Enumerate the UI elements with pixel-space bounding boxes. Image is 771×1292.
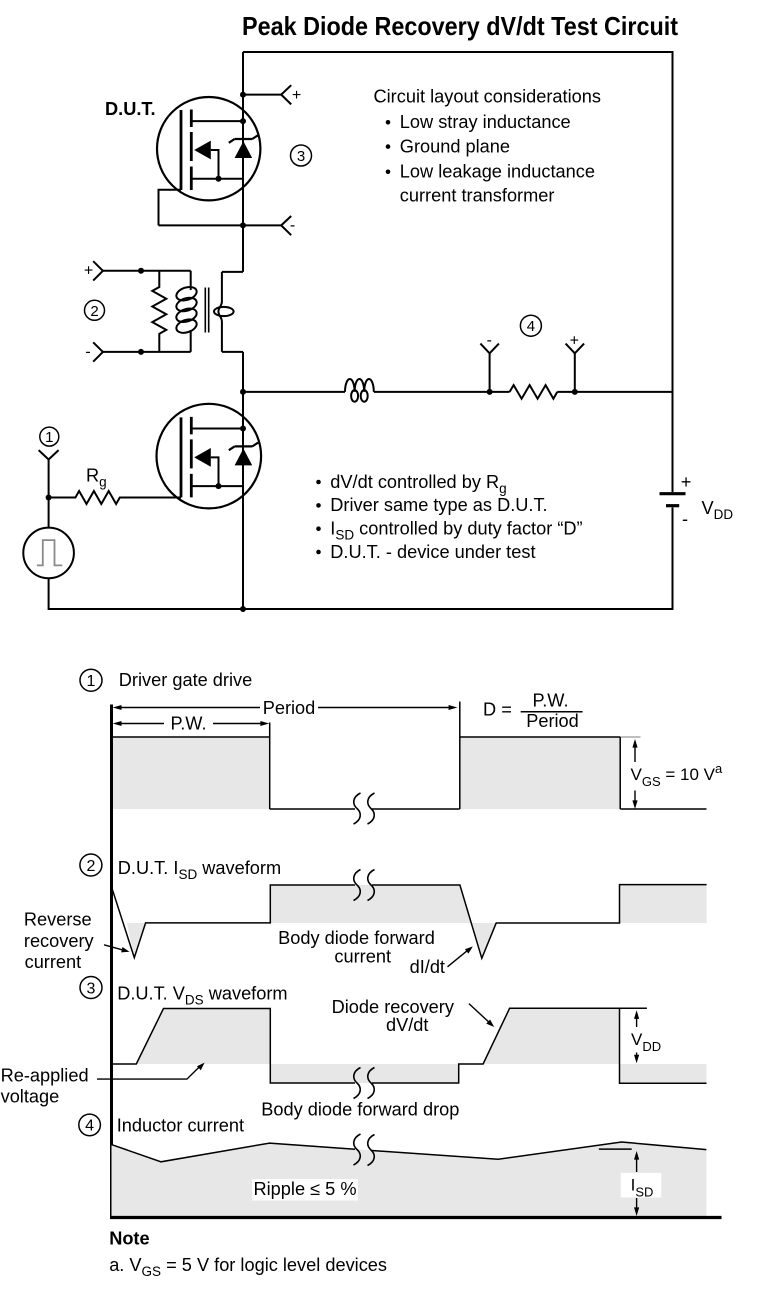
svg-text:+: + <box>570 333 579 350</box>
svg-text:1: 1 <box>87 673 96 690</box>
driver body arrow <box>194 448 211 467</box>
svg-text:Reverse: Reverse <box>24 909 92 929</box>
axis bottom <box>110 1216 722 1219</box>
svg-text:recovery: recovery <box>24 931 95 951</box>
transformer primary winding <box>175 271 199 352</box>
wire secondary top jog <box>222 271 243 273</box>
wf3 gray band 2 <box>620 1064 707 1083</box>
svg-text:Peak Diode Recovery dV/dt Test: Peak Diode Recovery dV/dt Test Circuit <box>242 11 678 41</box>
driver MOSFET body circle <box>157 404 262 509</box>
svg-text:Body diode forward: Body diode forward <box>278 928 435 948</box>
D.U.T. source bar <box>191 178 243 180</box>
svg-text:Note: Note <box>109 1229 149 1249</box>
arrow ISD <box>634 1151 639 1216</box>
node 1 label <box>40 427 59 446</box>
wf4 break <box>354 1134 375 1166</box>
node bottom rail junction <box>240 606 246 612</box>
node 3 waveform label <box>80 977 102 999</box>
svg-text:-: - <box>290 217 295 234</box>
svg-text:4: 4 <box>85 1118 94 1135</box>
wf4 tick <box>599 1148 632 1150</box>
wire - node horizontal <box>159 224 244 226</box>
wf3 gray band 1 <box>270 1064 458 1083</box>
driver arrow tail <box>211 457 219 486</box>
D.U.T. gate bar <box>180 110 183 190</box>
wire bottom rail <box>49 578 673 609</box>
pulse generator V1 <box>23 528 74 579</box>
node drain-probe junction <box>240 92 246 98</box>
node sense + <box>572 389 578 395</box>
node - probe junction <box>240 222 246 228</box>
svg-text:Driver same type as D.U.T.: Driver same type as D.U.T. <box>330 495 547 515</box>
svg-text:2: 2 <box>86 858 95 875</box>
wire probe to Rg node <box>48 460 50 528</box>
node 2 waveform label <box>80 854 102 876</box>
svg-text:Ground plane: Ground plane <box>400 137 510 157</box>
wire main vertical lower <box>242 352 244 609</box>
node primary + <box>138 268 144 274</box>
wf4 gray area <box>112 1142 707 1216</box>
driver gate bar <box>180 417 183 497</box>
D.U.T. body diode cathode bar <box>229 135 258 143</box>
wf1 gray pulse 1 <box>113 737 270 809</box>
D.U.T. MOSFET body circle <box>157 97 260 200</box>
svg-text:Body diode forward drop: Body diode forward drop <box>261 1099 459 1119</box>
svg-text:voltage: voltage <box>1 1087 60 1107</box>
node sense - <box>487 389 493 395</box>
leader re-applied voltage <box>97 1067 200 1079</box>
svg-text:+: + <box>681 472 692 492</box>
leader reverse recovery <box>104 945 125 951</box>
circuit layout considerations text <box>374 87 601 206</box>
bullet notes circuit <box>316 472 582 562</box>
node 3 label <box>291 145 312 166</box>
driver body diode triangle <box>235 449 253 466</box>
node driver source-arrow junction <box>216 483 222 489</box>
node D.U.T. drain <box>240 118 246 124</box>
probe - (transformer primary) <box>85 342 103 361</box>
svg-text:Diode recovery: Diode recovery <box>332 997 455 1017</box>
wire secondary bottom jog <box>222 351 243 353</box>
arrow VGS <box>632 739 637 809</box>
svg-text:+: + <box>84 263 93 280</box>
label reverse recovery current <box>24 909 95 972</box>
node 1 waveform label <box>80 669 102 691</box>
svg-text:3: 3 <box>87 980 96 997</box>
wf3 tick <box>620 1007 647 1009</box>
transformer core <box>205 288 208 333</box>
node 2 label <box>85 300 105 320</box>
D.U.T. channel dashes <box>190 110 193 191</box>
wf2 gray block 2 <box>620 885 707 923</box>
node Rg junction <box>46 495 52 501</box>
resistor Rg <box>49 491 181 504</box>
D.U.T. gate return wire <box>159 190 182 226</box>
wire primary top rail <box>103 270 191 272</box>
node 4 waveform label <box>79 1114 101 1136</box>
svg-text:D.U.T.: D.U.T. <box>105 99 156 119</box>
transformer secondary winding <box>214 272 234 352</box>
wire main vertical upper <box>242 52 244 272</box>
D.U.T. arrow tail <box>211 150 219 179</box>
label ISD <box>621 1173 662 1200</box>
node driver drain <box>240 426 246 432</box>
svg-text:-: - <box>487 332 492 349</box>
wf1 trace <box>112 702 707 810</box>
wf2 trace <box>112 885 707 959</box>
svg-text:current: current <box>25 952 82 972</box>
svg-text:Period: Period <box>263 698 316 718</box>
svg-text:P.W.: P.W. <box>532 690 568 710</box>
svg-text:D =: D = <box>483 700 512 720</box>
wf4 trace <box>112 1142 707 1162</box>
wire top rail <box>243 51 673 53</box>
wf3 gray pulse 2 <box>483 1008 619 1064</box>
D.U.T. drain bar <box>191 120 243 122</box>
arrow P.W. <box>113 714 270 734</box>
inductor L <box>345 379 374 402</box>
wf2 gray dip 1 <box>127 923 146 958</box>
wf3 break <box>354 1068 375 1099</box>
label re-applied voltage <box>1 1065 89 1106</box>
resistor (current sense shunt) <box>510 385 558 399</box>
svg-text:dV/dt: dV/dt <box>386 1015 428 1035</box>
label diode recovery dV/dt <box>332 997 455 1035</box>
probe + (transformer primary, node 2) <box>84 261 103 280</box>
svg-text:Driver gate drive: Driver gate drive <box>119 670 252 690</box>
resistor (transformer damping) <box>152 271 166 352</box>
svg-text:1: 1 <box>45 429 53 446</box>
driver drain bar <box>191 428 243 430</box>
D.U.T. body diode triangle <box>235 141 253 158</box>
driver channel dashes <box>190 417 193 498</box>
wire inductor to resistor <box>374 391 510 393</box>
svg-text:Inductor current: Inductor current <box>117 1115 244 1135</box>
wire right rail lower <box>672 508 674 611</box>
svg-text:Period: Period <box>526 711 579 731</box>
wf2 break <box>354 870 375 901</box>
wf3 trace <box>112 1008 707 1083</box>
svg-text:Circuit layout considerations: Circuit layout considerations <box>374 87 601 107</box>
leader dI/dt <box>448 950 469 967</box>
svg-text:Low stray inductance: Low stray inductance <box>400 112 571 132</box>
svg-text:2: 2 <box>90 303 98 320</box>
wire to inductor <box>243 391 345 393</box>
wf1 gray pulse 2 <box>460 737 620 809</box>
node 4 label <box>520 315 541 336</box>
formula D = P.W./Period <box>483 690 583 731</box>
D.U.T. body arrow <box>194 141 211 160</box>
probe gate drive (node 1) <box>39 450 59 459</box>
label ripple <box>252 1179 358 1201</box>
svg-text:-: - <box>85 343 90 360</box>
driver source bar <box>191 485 243 487</box>
wf1 gray tick <box>620 736 640 738</box>
wf2 gray dip 2 <box>472 923 497 958</box>
axis vertical <box>110 705 113 1220</box>
wire shunt to VDD rail <box>557 391 672 393</box>
driver body diode cathode bar <box>229 443 258 451</box>
probe + (current sense right) <box>566 333 585 392</box>
wire right rail upper <box>672 51 674 492</box>
label body diode forward current <box>278 928 435 966</box>
leader diode recovery <box>469 1004 491 1024</box>
svg-text:P.W.: P.W. <box>170 714 206 734</box>
probe - (below D.U.T.) <box>243 216 295 235</box>
svg-text:dI/dt: dI/dt <box>410 957 445 977</box>
svg-text:4: 4 <box>527 318 535 335</box>
battery VDD <box>660 472 734 529</box>
wf1 break <box>354 793 375 824</box>
svg-text:Ripple ≤ 5 %: Ripple ≤ 5 % <box>254 1179 357 1199</box>
node D.U.T. source-arrow junction <box>216 176 222 182</box>
svg-text:D.U.T. - device under test: D.U.T. - device under test <box>330 542 535 562</box>
node primary - <box>138 349 144 355</box>
svg-text:+: + <box>292 87 301 104</box>
probe - (current sense left) <box>480 332 499 392</box>
svg-text:3: 3 <box>297 148 305 165</box>
svg-text:Re-applied: Re-applied <box>1 1065 89 1085</box>
arrow VDD <box>634 1010 639 1063</box>
svg-text:-: - <box>682 509 688 529</box>
svg-text:Low leakage inductance: Low leakage inductance <box>400 162 595 182</box>
svg-text:current: current <box>334 946 391 966</box>
probe + (top, node 3) <box>243 85 301 104</box>
arrow period <box>113 698 458 718</box>
wf3 gray pulse 1 <box>136 1009 270 1065</box>
wire primary bottom rail <box>103 351 191 353</box>
svg-text:current transformer: current transformer <box>400 185 555 205</box>
node inductor branch <box>240 389 246 395</box>
wf2 gray block 1 <box>270 885 471 923</box>
